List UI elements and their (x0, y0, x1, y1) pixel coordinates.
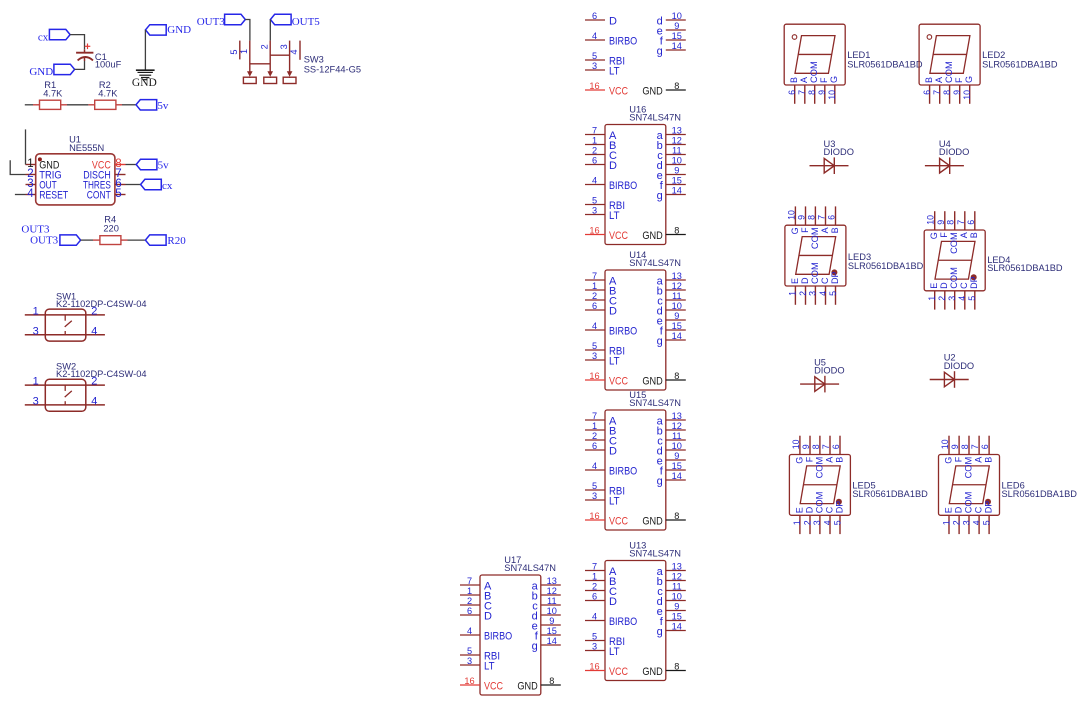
svg-text:SS-12F44-G5: SS-12F44-G5 (304, 64, 361, 74)
svg-text:VCC: VCC (609, 515, 628, 527)
svg-text:G: G (964, 76, 974, 83)
svg-text:D: D (609, 160, 617, 172)
svg-text:SN74LS47N: SN74LS47N (629, 113, 681, 123)
svg-text:OUT5: OUT5 (292, 16, 321, 28)
svg-text:4: 4 (27, 188, 34, 200)
svg-text:OUT3: OUT3 (197, 16, 226, 28)
svg-text:G: G (943, 457, 953, 464)
svg-text:cx: cx (38, 31, 49, 43)
svg-text:11: 11 (547, 596, 557, 606)
svg-text:8: 8 (674, 371, 679, 381)
svg-text:15: 15 (672, 176, 682, 186)
svg-text:16: 16 (464, 676, 474, 686)
svg-text:5: 5 (592, 196, 597, 206)
svg-text:g: g (657, 626, 663, 638)
svg-text:2: 2 (467, 596, 472, 606)
svg-text:4.7K: 4.7K (98, 88, 118, 98)
svg-text:cx: cx (162, 180, 173, 192)
svg-text:13: 13 (672, 126, 682, 136)
svg-text:BIRBO: BIRBO (609, 325, 638, 337)
svg-text:LT: LT (609, 646, 620, 658)
svg-text:9: 9 (674, 311, 679, 321)
svg-text:5: 5 (967, 296, 977, 301)
svg-text:5: 5 (592, 481, 597, 491)
svg-text:COM: COM (814, 457, 824, 479)
svg-text:DIODO: DIODO (939, 147, 969, 157)
svg-text:C: C (824, 506, 834, 513)
svg-text:9: 9 (674, 602, 679, 612)
svg-text:BIRBO: BIRBO (609, 180, 638, 192)
svg-text:D: D (954, 506, 964, 513)
svg-text:4: 4 (822, 520, 832, 525)
svg-text:9: 9 (936, 220, 946, 225)
svg-text:A: A (820, 227, 830, 233)
svg-text:D: D (939, 282, 949, 289)
svg-text:DP: DP (969, 276, 979, 289)
svg-text:1: 1 (592, 136, 597, 146)
svg-text:E: E (943, 507, 953, 513)
svg-text:7: 7 (467, 576, 472, 586)
svg-text:6: 6 (592, 11, 597, 21)
svg-text:E: E (929, 283, 939, 289)
svg-text:3: 3 (33, 325, 39, 337)
svg-text:GND: GND (132, 77, 157, 89)
svg-text:g: g (532, 640, 538, 652)
svg-text:G: G (929, 232, 939, 239)
svg-text:F: F (939, 232, 949, 238)
svg-text:4: 4 (592, 321, 597, 331)
svg-text:DIODO: DIODO (824, 147, 854, 157)
svg-text:4: 4 (289, 49, 299, 54)
svg-text:1: 1 (33, 306, 39, 318)
svg-text:SN74LS47N: SN74LS47N (629, 549, 681, 559)
svg-text:5: 5 (981, 520, 991, 525)
svg-text:4: 4 (818, 291, 828, 296)
svg-text:SLR0561DBA1BD: SLR0561DBA1BD (1002, 489, 1078, 499)
svg-text:GND: GND (29, 66, 53, 78)
svg-text:C: C (974, 506, 984, 513)
svg-text:12: 12 (672, 136, 682, 146)
svg-text:5v: 5v (157, 100, 169, 112)
svg-text:SLR0561DBA1BD: SLR0561DBA1BD (852, 489, 928, 499)
svg-text:4: 4 (957, 296, 967, 301)
svg-text:G: G (790, 227, 800, 234)
svg-text:LT: LT (609, 495, 620, 507)
svg-text:10: 10 (672, 441, 682, 451)
svg-text:16: 16 (589, 81, 599, 91)
svg-text:2: 2 (592, 291, 597, 301)
svg-text:8: 8 (942, 90, 952, 95)
svg-text:2: 2 (798, 291, 808, 296)
svg-text:12: 12 (547, 586, 557, 596)
svg-text:7: 7 (592, 562, 597, 572)
svg-text:K2-1102DP-C4SW-04: K2-1102DP-C4SW-04 (56, 299, 147, 309)
svg-text:BIRBO: BIRBO (609, 465, 638, 477)
svg-text:1: 1 (592, 421, 597, 431)
svg-text:SN74LS47N: SN74LS47N (629, 398, 681, 408)
svg-text:3: 3 (947, 296, 957, 301)
svg-text:7: 7 (592, 411, 597, 421)
svg-text:9: 9 (674, 451, 679, 461)
svg-text:3: 3 (33, 396, 39, 408)
svg-text:11: 11 (672, 146, 682, 156)
svg-text:VCC: VCC (609, 375, 628, 387)
svg-text:3: 3 (592, 491, 597, 501)
svg-text:4: 4 (592, 612, 597, 622)
svg-text:g: g (657, 475, 663, 487)
svg-text:12: 12 (672, 572, 682, 582)
svg-text:LT: LT (609, 65, 620, 77)
svg-text:GND: GND (517, 680, 537, 692)
svg-text:3: 3 (961, 520, 971, 525)
svg-text:1: 1 (467, 586, 472, 596)
svg-text:SLR0561DBA1BD: SLR0561DBA1BD (847, 60, 923, 70)
svg-text:6: 6 (592, 301, 597, 311)
svg-text:2: 2 (592, 582, 597, 592)
svg-text:4: 4 (592, 176, 597, 186)
svg-text:2: 2 (802, 520, 812, 525)
svg-text:3: 3 (808, 291, 818, 296)
svg-text:7: 7 (821, 444, 831, 449)
svg-text:LT: LT (609, 355, 620, 367)
svg-text:2: 2 (260, 44, 270, 49)
svg-text:10: 10 (547, 606, 557, 616)
svg-text:2: 2 (592, 431, 597, 441)
svg-text:VCC: VCC (609, 230, 628, 242)
svg-text:A: A (799, 77, 809, 83)
svg-text:SLR0561DBA1BD: SLR0561DBA1BD (848, 261, 924, 271)
svg-text:9: 9 (950, 444, 960, 449)
svg-text:9: 9 (952, 90, 962, 95)
svg-text:2: 2 (937, 296, 947, 301)
svg-text:1: 1 (239, 49, 249, 54)
svg-text:VCC: VCC (609, 666, 628, 678)
svg-text:5: 5 (467, 646, 472, 656)
svg-text:10: 10 (962, 90, 972, 100)
svg-text:10: 10 (672, 156, 682, 166)
svg-text:15: 15 (672, 612, 682, 622)
svg-text:COM: COM (814, 492, 824, 514)
svg-text:8: 8 (807, 90, 817, 95)
svg-text:F: F (804, 456, 814, 462)
svg-text:DIODO: DIODO (944, 361, 974, 371)
svg-text:K2-1102DP-C4SW-04: K2-1102DP-C4SW-04 (56, 369, 147, 379)
svg-text:F: F (954, 77, 964, 83)
svg-text:COM: COM (810, 227, 820, 249)
svg-text:5: 5 (592, 341, 597, 351)
svg-text:5: 5 (592, 632, 597, 642)
svg-text:COM: COM (963, 492, 973, 514)
svg-text:4: 4 (91, 325, 97, 337)
svg-text:10: 10 (672, 301, 682, 311)
svg-text:F: F (819, 77, 829, 83)
svg-text:9: 9 (674, 21, 679, 31)
svg-text:5v: 5v (158, 160, 170, 172)
svg-text:6: 6 (831, 444, 841, 449)
svg-text:5: 5 (115, 188, 121, 200)
svg-text:2: 2 (91, 376, 97, 388)
svg-text:BIRBO: BIRBO (484, 630, 513, 642)
svg-text:11: 11 (672, 582, 682, 592)
svg-text:14: 14 (547, 636, 557, 646)
svg-text:A: A (934, 77, 944, 83)
svg-text:7: 7 (797, 90, 807, 95)
svg-text:COM: COM (944, 61, 954, 83)
svg-text:100uF: 100uF (95, 60, 122, 70)
svg-text:COM: COM (810, 262, 820, 284)
svg-text:10: 10 (827, 90, 837, 100)
svg-text:8: 8 (674, 662, 679, 672)
svg-text:13: 13 (547, 576, 557, 586)
svg-text:15: 15 (672, 321, 682, 331)
svg-text:NE555N: NE555N (69, 143, 104, 153)
svg-text:4: 4 (467, 626, 472, 636)
svg-text:3: 3 (279, 44, 289, 49)
svg-text:9: 9 (674, 166, 679, 176)
svg-text:SN74LS47N: SN74LS47N (629, 258, 681, 268)
svg-text:1: 1 (927, 296, 937, 301)
svg-text:VCC: VCC (484, 680, 503, 692)
svg-text:3: 3 (467, 656, 472, 666)
svg-text:B: B (830, 227, 840, 233)
svg-text:16: 16 (589, 511, 599, 521)
svg-text:GND: GND (167, 24, 191, 36)
svg-text:4: 4 (91, 396, 97, 408)
svg-text:2: 2 (91, 306, 97, 318)
svg-text:COM: COM (949, 232, 959, 254)
svg-text:E: E (794, 507, 804, 513)
svg-text:OUT3: OUT3 (30, 234, 59, 246)
svg-text:1: 1 (792, 520, 802, 525)
svg-text:3: 3 (592, 351, 597, 361)
svg-text:DP: DP (834, 501, 844, 514)
svg-text:16: 16 (589, 662, 599, 672)
svg-text:GND: GND (642, 85, 662, 97)
svg-text:5: 5 (832, 520, 842, 525)
svg-text:14: 14 (672, 331, 682, 341)
svg-text:D: D (609, 596, 617, 608)
svg-text:13: 13 (672, 411, 682, 421)
svg-text:4: 4 (592, 461, 597, 471)
svg-text:BIRBO: BIRBO (609, 35, 638, 47)
svg-text:7: 7 (592, 271, 597, 281)
svg-text:13: 13 (672, 271, 682, 281)
svg-text:8: 8 (806, 215, 816, 220)
svg-text:6: 6 (467, 606, 472, 616)
svg-text:14: 14 (672, 622, 682, 632)
svg-text:5: 5 (229, 49, 239, 54)
svg-text:G: G (794, 457, 804, 464)
svg-text:C: C (959, 282, 969, 289)
svg-text:SN74LS47N: SN74LS47N (504, 563, 556, 573)
svg-text:B: B (969, 232, 979, 238)
svg-text:F: F (800, 227, 810, 233)
svg-text:7: 7 (932, 90, 942, 95)
svg-text:3: 3 (592, 642, 597, 652)
svg-text:G: G (829, 76, 839, 83)
svg-text:3: 3 (592, 206, 597, 216)
svg-text:COM: COM (963, 457, 973, 479)
svg-text:B: B (789, 77, 799, 83)
svg-text:2: 2 (951, 520, 961, 525)
svg-text:16: 16 (589, 226, 599, 236)
svg-text:2: 2 (592, 146, 597, 156)
svg-text:6: 6 (592, 441, 597, 451)
svg-text:8: 8 (960, 444, 970, 449)
svg-text:12: 12 (672, 421, 682, 431)
svg-text:BIRBO: BIRBO (609, 616, 638, 628)
svg-text:16: 16 (589, 371, 599, 381)
svg-text:DP: DP (984, 501, 994, 514)
svg-text:LT: LT (609, 210, 620, 222)
svg-text:A: A (824, 457, 834, 463)
svg-text:7: 7 (970, 444, 980, 449)
svg-text:13: 13 (672, 562, 682, 572)
svg-text:E: E (790, 278, 800, 284)
svg-text:D: D (484, 610, 492, 622)
svg-text:7: 7 (817, 215, 827, 220)
svg-text:6: 6 (787, 90, 797, 95)
svg-text:5: 5 (592, 51, 597, 61)
svg-text:B: B (924, 77, 934, 83)
svg-text:12: 12 (672, 281, 682, 291)
svg-text:1: 1 (592, 281, 597, 291)
svg-text:g: g (657, 335, 663, 347)
svg-text:R20: R20 (167, 235, 186, 247)
svg-text:15: 15 (547, 626, 557, 636)
svg-text:8: 8 (946, 220, 956, 225)
svg-text:F: F (954, 456, 964, 462)
svg-text:SLR0561DBA1BD: SLR0561DBA1BD (987, 263, 1063, 273)
svg-text:8: 8 (811, 444, 821, 449)
svg-text:g: g (657, 190, 663, 202)
svg-text:10: 10 (672, 11, 682, 21)
svg-text:10: 10 (672, 592, 682, 602)
svg-text:8: 8 (674, 511, 679, 521)
svg-text:15: 15 (672, 461, 682, 471)
svg-text:CONT: CONT (87, 190, 111, 202)
svg-text:4: 4 (971, 520, 981, 525)
svg-text:D: D (609, 305, 617, 317)
svg-text:8: 8 (674, 226, 679, 236)
svg-text:D: D (800, 277, 810, 284)
svg-text:15: 15 (672, 31, 682, 41)
svg-text:GND: GND (642, 515, 662, 527)
svg-text:C: C (820, 277, 830, 284)
svg-text:SW3: SW3 (304, 55, 324, 65)
svg-text:B: B (834, 457, 844, 463)
svg-text:DP: DP (830, 271, 840, 284)
svg-text:LT: LT (484, 660, 495, 672)
svg-text:DIODO: DIODO (814, 366, 844, 376)
svg-text:COM: COM (949, 267, 959, 289)
svg-text:220: 220 (103, 224, 119, 234)
svg-text:5: 5 (828, 291, 838, 296)
svg-text:COM: COM (809, 61, 819, 83)
svg-text:D: D (804, 506, 814, 513)
svg-text:1: 1 (788, 291, 798, 296)
svg-text:8: 8 (549, 676, 554, 686)
svg-text:GND: GND (642, 666, 662, 678)
svg-text:6: 6 (922, 90, 932, 95)
svg-text:10: 10 (786, 210, 796, 220)
svg-text:D: D (609, 445, 617, 457)
svg-text:g: g (657, 45, 663, 57)
svg-text:GND: GND (642, 375, 662, 387)
svg-text:14: 14 (672, 41, 682, 51)
svg-text:11: 11 (672, 291, 682, 301)
svg-text:9: 9 (797, 215, 807, 220)
svg-text:14: 14 (672, 471, 682, 481)
svg-text:6: 6 (966, 220, 976, 225)
svg-text:11: 11 (672, 431, 682, 441)
svg-text:B: B (984, 457, 994, 463)
svg-text:8: 8 (674, 81, 679, 91)
svg-text:10: 10 (940, 439, 950, 449)
svg-text:10: 10 (926, 215, 936, 225)
svg-text:4.7K: 4.7K (43, 88, 63, 98)
svg-text:9: 9 (817, 90, 827, 95)
svg-text:9: 9 (801, 444, 811, 449)
svg-text:D: D (609, 15, 617, 27)
svg-text:6: 6 (592, 156, 597, 166)
svg-text:6: 6 (980, 444, 990, 449)
svg-text:6: 6 (592, 592, 597, 602)
svg-text:7: 7 (592, 126, 597, 136)
svg-text:VCC: VCC (609, 85, 628, 97)
svg-text:SLR0561DBA1BD: SLR0561DBA1BD (982, 60, 1058, 70)
svg-text:3: 3 (812, 520, 822, 525)
svg-text:1: 1 (33, 376, 39, 388)
svg-text:9: 9 (549, 616, 554, 626)
svg-text:4: 4 (592, 31, 597, 41)
svg-text:14: 14 (672, 186, 682, 196)
svg-text:A: A (959, 232, 969, 238)
svg-text:1: 1 (941, 520, 951, 525)
svg-text:1: 1 (592, 572, 597, 582)
svg-text:10: 10 (791, 439, 801, 449)
svg-text:6: 6 (827, 215, 837, 220)
svg-text:3: 3 (592, 61, 597, 71)
svg-text:RESET: RESET (39, 190, 68, 202)
svg-text:7: 7 (956, 220, 966, 225)
svg-text:A: A (974, 457, 984, 463)
svg-text:GND: GND (642, 230, 662, 242)
